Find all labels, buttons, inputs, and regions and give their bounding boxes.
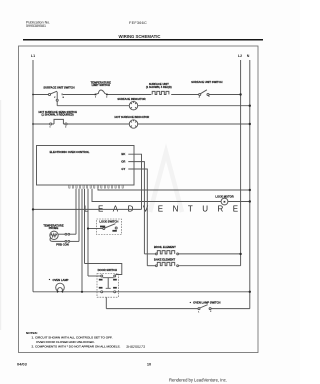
door switch terminal tags — [99, 279, 117, 289]
header heavy rule — [23, 39, 263, 41]
junction rowA-N — [249, 105, 251, 107]
EOC connector pins — [69, 185, 123, 188]
wire OR stub — [128, 162, 144, 254]
wire probe bottom — [50, 238, 65, 242]
node L2 — [240, 60, 242, 266]
svg-text:N: N — [247, 54, 250, 58]
scan edge shadow — [0, 100, 1, 330]
wire pin to probe top — [75, 189, 77, 234]
lock switch box — [97, 219, 122, 235]
lamp surface indicator — [129, 101, 137, 110]
oven lamp switch — [198, 305, 211, 310]
door switch contacts — [101, 275, 116, 293]
svg-text:NOTES:: NOTES: — [26, 331, 38, 335]
svg-text:5: 5 — [209, 96, 210, 98]
svg-text:4: 4 — [199, 96, 200, 99]
svg-text:2: 2 — [210, 311, 211, 313]
junction row1-L2 — [239, 93, 241, 95]
svg-text:(1 SHOWN, 3 REQUIRED): (1 SHOWN, 3 REQUIRED) — [41, 112, 73, 116]
terminal micro labels — [50, 96, 212, 314]
surface unit switch SW2 — [199, 90, 209, 96]
svg-text:HOT SURFACE INDICATOR: HOT SURFACE INDICATOR — [115, 115, 150, 119]
svg-text:LOCK SWITCH: LOCK SWITCH — [99, 220, 118, 224]
junction y190-N — [249, 189, 251, 191]
wire pin to probe bottom — [78, 189, 80, 242]
wire tap to row A — [56, 101, 58, 106]
hot surface sense switch — [50, 119, 67, 125]
svg-text:04/03: 04/03 — [17, 362, 28, 367]
junction lock COM feed — [87, 227, 89, 229]
lamp hot surface indicator — [129, 120, 137, 128]
junction broil-L2 — [239, 253, 241, 255]
svg-text:OVEN DOOR CLOSED AND UNLOCKED.: OVEN DOOR CLOSED AND UNLOCKED. — [36, 340, 95, 344]
thermistor temperature probe — [50, 231, 58, 239]
junction row1-L1 — [32, 94, 34, 96]
svg-text:PRB CON: PRB CON — [56, 242, 68, 246]
svg-text:OVEN LAMP SWITCH: OVEN LAMP SWITCH — [193, 301, 220, 305]
wire row1 — [33, 94, 241, 96]
svg-text:PROBE: PROBE — [49, 226, 59, 230]
door switch box — [97, 274, 118, 298]
svg-text:GY: GY — [121, 167, 125, 171]
wire to lock COM — [88, 228, 103, 230]
watermark peak — [150, 152, 182, 212]
svg-text:1: 1 — [198, 311, 199, 313]
svg-text:BK: BK — [121, 152, 125, 156]
resistor surface unit element — [152, 91, 169, 94]
svg-text:ELECTRONIC OVEN CONTROL: ELECTRONIC OVEN CONTROL — [50, 150, 90, 154]
junction lockmotor-N — [249, 200, 251, 202]
junction rail-pin82 — [81, 291, 83, 293]
wire bottom rail — [33, 291, 250, 293]
svg-text:L2: L2 — [238, 54, 242, 58]
temperature limit switch — [95, 90, 108, 95]
surface unit switch SW1 — [48, 91, 62, 101]
notes — [26, 331, 121, 348]
svg-text:2. COMPONENTS WITH * DO NOT A: 2. COMPONENTS WITH * DO NOT APPEAR ON AL… — [32, 344, 121, 348]
lock switch tags — [100, 226, 117, 232]
svg-text:1: 1 — [95, 97, 96, 99]
svg-text:OVEN LAMP: OVEN LAMP — [53, 278, 69, 282]
wire row B — [33, 123, 250, 125]
svg-text:OR: OR — [121, 160, 125, 164]
wire L1 to EOC feed — [33, 208, 142, 210]
svg-text:5995389581: 5995389581 — [26, 24, 46, 28]
junction rail-N — [249, 291, 251, 293]
svg-text:BROIL ELEMENT: BROIL ELEMENT — [154, 245, 176, 249]
svg-text:FEF366C: FEF366C — [129, 21, 147, 25]
svg-text:Rendered by LeadVenture, Inc.: Rendered by LeadVenture, Inc. — [169, 378, 227, 383]
EOC box U1 — [37, 146, 135, 186]
svg-text:DOOR SWITCH: DOOR SWITCH — [98, 268, 117, 272]
svg-text:LIMIT SWITCH: LIMIT SWITCH — [92, 83, 110, 87]
wire door switch COM feed — [88, 275, 101, 277]
wire pin to lamp rail — [81, 189, 83, 292]
wire pin to lock switch COM — [87, 189, 89, 276]
connector probe top — [65, 233, 76, 235]
resistor broil element — [144, 251, 240, 255]
resistor bake element — [147, 262, 240, 266]
junction L1 feed — [32, 208, 34, 210]
svg-text:SURFACE INDICATOR: SURFACE INDICATOR — [117, 97, 145, 101]
node N — [249, 60, 251, 309]
motor lock motor — [221, 198, 228, 205]
svg-text:(1 SHOWN, 4 REQD): (1 SHOWN, 4 REQD) — [146, 85, 172, 89]
junction lamp feet — [57, 291, 59, 293]
svg-text:SURFACE UNIT SWITCH: SURFACE UNIT SWITCH — [43, 85, 74, 89]
junction rowB-L1 — [32, 123, 34, 125]
svg-text:BAKE ELEMENT: BAKE ELEMENT — [154, 258, 176, 262]
node L1 — [32, 60, 34, 292]
wire pin to door switch NO — [84, 189, 86, 264]
svg-text:SURFACE UNIT SWITCH: SURFACE UNIT SWITCH — [191, 80, 222, 84]
wire pin to N — [98, 189, 250, 190]
wire probe top — [58, 233, 65, 235]
wire door switch NO feed — [85, 264, 122, 275]
wire row A — [57, 105, 250, 107]
wire BK stub — [128, 154, 141, 209]
wire door box to lamp switch line — [105, 297, 107, 308]
svg-text:3H8255173: 3H8255173 — [126, 345, 146, 349]
svg-text:2: 2 — [106, 97, 107, 99]
svg-text:L1: L1 — [31, 54, 35, 58]
lamp oven lamp — [56, 283, 65, 292]
lock switch contacts — [103, 224, 117, 230]
wire GY stub — [128, 169, 147, 266]
connector probe bottom — [65, 241, 79, 243]
wire lock motor to N — [228, 201, 250, 203]
junction rowB-N — [249, 123, 251, 125]
svg-text:LOCK MOTOR: LOCK MOTOR — [215, 194, 233, 198]
svg-text:2: 2 — [65, 126, 66, 128]
wire oven lamp switch line — [106, 308, 250, 310]
page border — [19, 46, 259, 353]
svg-text:1: 1 — [50, 126, 51, 128]
svg-text:10: 10 — [147, 362, 151, 367]
wire pin to lock motor — [92, 189, 221, 202]
svg-text:WIRING SCHEMATIC: WIRING SCHEMATIC — [119, 34, 161, 39]
